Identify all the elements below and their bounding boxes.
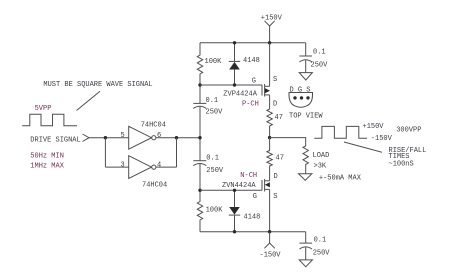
- svg-text:74HC04: 74HC04: [141, 121, 166, 129]
- bubble U1A: [152, 136, 156, 140]
- wire P gate line: [200, 84, 262, 86]
- drive signal square waveform: [22, 114, 77, 126]
- svg-text:74HC04: 74HC04: [142, 181, 167, 189]
- ground load: [299, 174, 312, 181]
- svg-text:G: G: [252, 77, 256, 85]
- svg-text:ZVP4424A: ZVP4424A: [223, 90, 257, 98]
- node diode bottom bus: [233, 230, 236, 233]
- ground bottom right: [299, 260, 312, 267]
- wire N source to bus: [269, 189, 271, 231]
- node diode top gate: [233, 83, 236, 86]
- svg-text:4: 4: [157, 161, 161, 169]
- svg-text:4148: 4148: [243, 57, 260, 65]
- svg-text:6: 6: [157, 132, 161, 140]
- svg-text:D: D: [274, 173, 278, 181]
- svg-text:0.1: 0.1: [314, 237, 327, 245]
- svg-text:50Hz MIN: 50Hz MIN: [30, 152, 64, 160]
- svg-text:S: S: [273, 193, 277, 201]
- svg-text:1MHz MAX: 1MHz MAX: [30, 162, 64, 170]
- svg-text:250V: 250V: [311, 61, 329, 69]
- svg-text:250V: 250V: [206, 108, 224, 116]
- svg-text:~100nS: ~100nS: [389, 160, 414, 168]
- svg-text:P-CH: P-CH: [242, 101, 259, 109]
- wire left rail mid: [199, 107, 201, 161]
- resistor R4 47 bottom: [267, 138, 272, 181]
- wire N gate line: [200, 189, 262, 191]
- svg-text:+150V: +150V: [363, 123, 385, 131]
- diode D1 4148 top: [234, 43, 236, 61]
- svg-text:47: 47: [275, 114, 283, 122]
- svg-text:N-CH: N-CH: [240, 172, 257, 180]
- svg-text:ZVN4424A: ZVN4424A: [222, 182, 256, 190]
- svg-text:5: 5: [121, 132, 125, 140]
- resistor R3 47 top: [267, 109, 272, 138]
- diode D2 4148 bottom: [234, 190, 236, 207]
- wire top bus: [200, 42, 306, 44]
- op-amp U1B inverter triangle bottom: [129, 156, 152, 179]
- svg-text:S: S: [273, 76, 277, 84]
- svg-text:4148: 4148: [244, 214, 261, 222]
- svg-text:100K: 100K: [205, 58, 223, 66]
- pointer line rise/fall: [344, 142, 382, 152]
- wire P source: [269, 43, 271, 87]
- node center top bus: [268, 41, 271, 44]
- node diode bottom gate: [233, 189, 236, 192]
- svg-text:+150V: +150V: [261, 15, 283, 23]
- svg-text:5VPP: 5VPP: [35, 105, 52, 113]
- wire outputs tie vertical: [176, 138, 178, 167]
- svg-text:250V: 250V: [313, 249, 331, 257]
- node output junction: [175, 136, 178, 139]
- svg-text:LOAD: LOAD: [313, 152, 330, 160]
- svg-text:0.1: 0.1: [313, 48, 326, 56]
- node diode top bus: [233, 41, 236, 44]
- wire junction down: [104, 138, 106, 167]
- svg-text:DRIVE SIGNAL: DRIVE SIGNAL: [30, 136, 80, 144]
- input chevron: [83, 134, 90, 142]
- svg-text:D: D: [273, 100, 277, 108]
- wire bottom inverter output: [156, 166, 177, 168]
- wire output to load: [270, 138, 306, 146]
- svg-text:-150V: -150V: [371, 135, 393, 143]
- node left rail output junction: [198, 136, 201, 139]
- node center bottom bus: [268, 230, 271, 233]
- capacitor C2 0.1 250V: [193, 160, 206, 162]
- resistor R5 LOAD: [303, 146, 308, 174]
- svg-text:>3K: >3K: [314, 162, 327, 170]
- svg-text:250V: 250V: [206, 167, 224, 175]
- bubble U1B: [152, 165, 156, 169]
- capacitor C3 0.1 250V top right: [305, 43, 307, 56]
- pointer line from note to drive waveform: [77, 91, 101, 110]
- capacitor C1 0.1 250V: [193, 102, 206, 104]
- wire input to inverters: [89, 137, 129, 139]
- node input junction: [104, 136, 107, 139]
- capacitor C4 0.1 250V bottom right: [305, 232, 307, 243]
- svg-text:-150V: -150V: [260, 252, 282, 260]
- TO-92 package outline U2: [289, 93, 313, 108]
- supply -150V symbol: [264, 232, 274, 249]
- wire P drain: [269, 95, 271, 109]
- svg-text:G: G: [253, 193, 257, 201]
- svg-text:D G S: D G S: [290, 87, 311, 95]
- wire to lower inverter input: [105, 166, 128, 168]
- svg-text:300VPP: 300VPP: [396, 127, 421, 135]
- output square waveform: [314, 126, 367, 138]
- node P gate left: [198, 83, 201, 86]
- TO-92 pin dots: [293, 96, 296, 99]
- ground top right: [299, 73, 312, 80]
- resistor R2 100K bottom: [197, 164, 202, 232]
- svg-text:0.1: 0.1: [206, 97, 219, 105]
- op-amp U1A inverter triangle top: [129, 126, 152, 149]
- svg-text:3: 3: [121, 161, 125, 169]
- wire bottom bus: [200, 231, 306, 233]
- svg-text:0.1: 0.1: [206, 154, 219, 162]
- svg-text:47: 47: [276, 154, 284, 162]
- svg-text:MUST BE SQUARE WAVE SIGNAL: MUST BE SQUARE WAVE SIGNAL: [43, 81, 152, 89]
- node output center: [268, 136, 271, 139]
- wire top inverter output: [156, 137, 200, 139]
- resistor R1 100K top: [197, 43, 202, 104]
- svg-text:100K: 100K: [206, 206, 224, 214]
- svg-text:+-50mA MAX: +-50mA MAX: [319, 174, 362, 182]
- node N gate left: [198, 189, 201, 192]
- svg-text:TOP VIEW: TOP VIEW: [289, 112, 323, 120]
